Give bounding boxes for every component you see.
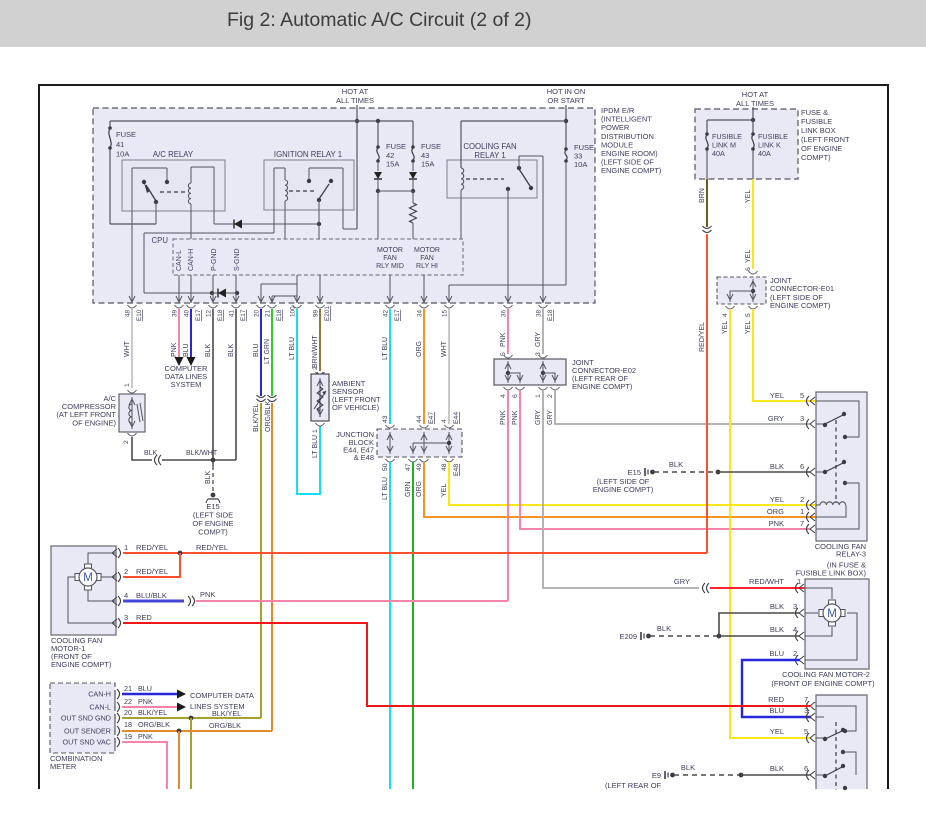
svg-text:A/C RELAY: A/C RELAY	[153, 150, 194, 159]
svg-text:BLK: BLK	[657, 624, 671, 633]
svg-text:LT BLU: LT BLU	[312, 435, 319, 458]
wire GRY E02-1	[543, 390, 699, 588]
title bar	[0, 0, 926, 47]
svg-text:LT BLU: LT BLU	[382, 337, 389, 360]
svg-text:47: 47	[405, 463, 412, 471]
svg-text:E18: E18	[276, 309, 283, 321]
svg-text:BLK: BLK	[669, 460, 683, 469]
svg-text:YEL: YEL	[722, 321, 729, 334]
svg-text:ORG: ORG	[416, 341, 423, 357]
relay COOLING FAN RELAY-3	[816, 392, 867, 541]
svg-text:18: 18	[124, 720, 132, 729]
svg-text:GRY: GRY	[535, 410, 542, 425]
wire YEL 48	[449, 462, 816, 505]
wire fanrelay1 coil to CPU	[460, 190, 462, 239]
svg-text:20: 20	[254, 309, 261, 317]
relay2 pin6	[807, 770, 810, 780]
pin 21 IPDM exit	[269, 296, 272, 302]
svg-text:FUSE: FUSE	[421, 142, 441, 151]
svg-text:CAN-L: CAN-L	[176, 250, 183, 271]
svg-text:HOT IN ON: HOT IN ON	[547, 87, 586, 96]
svg-text:Fig 2: Automatic A/C Circuit (: Fig 2: Automatic A/C Circuit (2 of 2)	[227, 9, 532, 31]
fuse 41	[109, 121, 111, 127]
FUSE AND FUSIBLE LINK BOX	[695, 109, 798, 179]
pin 42 IPDM exit	[387, 296, 390, 302]
svg-text:COOLING FAN MOTOR-2: COOLING FAN MOTOR-2	[782, 670, 870, 679]
svg-text:2: 2	[312, 366, 319, 370]
svg-text:BLK: BLK	[770, 462, 784, 471]
svg-text:E9: E9	[652, 771, 661, 780]
pin 15 IPDM exit	[446, 296, 449, 302]
svg-text:PNK: PNK	[500, 332, 507, 347]
svg-text:LT BLU: LT BLU	[382, 477, 389, 500]
wire WHT 15 drop	[448, 309, 450, 424]
svg-text:GRN: GRN	[405, 481, 412, 497]
svg-text:OUT SENDER: OUT SENDER	[64, 727, 111, 736]
svg-text:(FRONT OF ENGINE COMPT): (FRONT OF ENGINE COMPT)	[771, 679, 875, 688]
svg-text:BRN: BRN	[699, 188, 706, 203]
svg-text:HOT AT: HOT AT	[342, 87, 369, 96]
motor1 pin2	[118, 572, 121, 582]
relay2 pin5	[807, 733, 810, 743]
svg-text:BLK/YEL: BLK/YEL	[212, 709, 241, 718]
fuse 33	[564, 147, 568, 151]
svg-text:22: 22	[124, 697, 132, 706]
wire ORG 34 drop	[423, 309, 425, 424]
svg-text:S-GND: S-GND	[234, 248, 241, 271]
junction block exit 50	[386, 459, 395, 462]
svg-text:RLY MID: RLY MID	[376, 263, 404, 270]
wire fuse link 42-43	[378, 190, 413, 192]
svg-text:15A: 15A	[421, 160, 434, 169]
svg-text:20: 20	[124, 708, 132, 717]
link bus	[707, 119, 753, 121]
wire CPU to pin42	[389, 275, 391, 303]
fuse 43	[412, 121, 414, 146]
svg-text:10A: 10A	[574, 160, 587, 169]
svg-text:CAN-H: CAN-H	[188, 249, 195, 271]
ignrelay internal switch	[309, 167, 343, 169]
wire BLU/BLK	[123, 600, 184, 603]
wire BRN	[706, 179, 708, 227]
svg-text:CPU: CPU	[152, 236, 169, 245]
COOLING FAN MOTOR-1	[51, 546, 116, 635]
wire acrelay switch out	[131, 168, 133, 303]
svg-text:COOLING FAN: COOLING FAN	[463, 142, 516, 151]
pin 100 IPDM exit	[294, 296, 297, 302]
motor2 pin2	[796, 655, 799, 665]
relay2 internals	[816, 706, 856, 731]
svg-text:4: 4	[124, 591, 128, 600]
wire BLU 40	[190, 309, 192, 357]
svg-text:OR START: OR START	[547, 96, 585, 105]
svg-text:FUSE: FUSE	[386, 142, 406, 151]
svg-text:BLU/BLK: BLU/BLK	[136, 591, 167, 600]
svg-text:7: 7	[804, 695, 808, 704]
acrelay dashed link	[160, 191, 185, 193]
E01 exit 4	[726, 306, 735, 309]
svg-text:COMPUTER DATA: COMPUTER DATA	[190, 691, 254, 700]
svg-text:OF ENGINE: OF ENGINE	[801, 144, 842, 153]
svg-text:43: 43	[382, 415, 389, 423]
wire ignrelay coil return	[273, 168, 275, 233]
svg-text:PNK: PNK	[769, 519, 784, 528]
svg-text:BLK/WHT: BLK/WHT	[186, 450, 218, 457]
relay2 pin7	[807, 701, 810, 711]
svg-text:41: 41	[229, 309, 236, 317]
wire GRY 38 drop	[542, 309, 544, 354]
svg-text:E44: E44	[453, 412, 460, 424]
wire BLK 41	[235, 309, 237, 460]
svg-text:BLU: BLU	[138, 684, 152, 693]
svg-text:E17: E17	[195, 309, 202, 321]
wire YEL link K	[752, 179, 754, 269]
svg-text:PNK: PNK	[200, 590, 215, 599]
svg-text:HOT AT: HOT AT	[742, 90, 769, 99]
svg-text:E10: E10	[136, 309, 143, 321]
svg-text:FUSIBLE LINK BOX): FUSIBLE LINK BOX)	[796, 569, 867, 578]
relay3 pin7	[807, 524, 810, 534]
svg-text:OF VEHICLE): OF VEHICLE)	[332, 403, 380, 412]
svg-text:6: 6	[745, 267, 752, 271]
svg-text:RED/YEL: RED/YEL	[196, 543, 228, 552]
svg-text:36: 36	[501, 309, 508, 317]
svg-text:RED/YEL: RED/YEL	[136, 567, 168, 576]
relay3 pin6	[807, 467, 810, 477]
svg-text:6: 6	[512, 394, 519, 398]
svg-text:E48: E48	[453, 464, 460, 476]
svg-text:YEL: YEL	[745, 321, 752, 334]
svg-text:40A: 40A	[712, 149, 725, 158]
svg-text:RED/WHT: RED/WHT	[749, 577, 784, 586]
svg-text:M: M	[83, 572, 93, 584]
connector GRY/REDWHT	[703, 583, 706, 593]
svg-text:5: 5	[745, 313, 752, 317]
svg-text:6: 6	[800, 462, 804, 471]
E02 exit 2	[551, 387, 560, 390]
fusible link M	[705, 132, 709, 136]
svg-text:FUSIBLE: FUSIBLE	[801, 117, 832, 126]
svg-text:RED: RED	[768, 695, 784, 704]
power bus 2	[461, 120, 566, 122]
wire fanrelay1 common	[518, 156, 520, 168]
svg-text:WHT: WHT	[441, 340, 448, 357]
svg-text:BRN/WHT: BRN/WHT	[312, 335, 319, 368]
wire feed left hot	[356, 105, 358, 229]
svg-text:1: 1	[312, 429, 319, 433]
pin 34 IPDM exit	[421, 296, 424, 302]
wire CPU to pin12	[212, 275, 214, 303]
svg-text:49: 49	[416, 463, 423, 471]
svg-text:4: 4	[793, 625, 797, 634]
wire feed ign hot	[565, 105, 567, 148]
svg-text:E18: E18	[547, 309, 554, 321]
svg-text:P-GND: P-GND	[211, 248, 218, 271]
svg-text:RELAY-3: RELAY-3	[836, 550, 866, 559]
svg-text:E17: E17	[240, 309, 247, 321]
wire RED/YEL branch	[123, 553, 180, 577]
connector LTGRN/ORGBLK	[268, 395, 277, 398]
wire ignrelay switch to diode line	[318, 200, 320, 239]
svg-text:34: 34	[417, 309, 424, 317]
fanrelay1 dashed link	[466, 178, 504, 180]
motor2 pin3	[796, 608, 799, 618]
svg-text:BLK: BLK	[205, 470, 212, 484]
svg-text:RED/YEL: RED/YEL	[699, 322, 706, 352]
svg-text:YEL: YEL	[770, 495, 784, 504]
svg-text:LINK BOX: LINK BOX	[801, 126, 836, 135]
svg-text:E47: E47	[428, 412, 435, 424]
fuse 42	[376, 119, 380, 123]
svg-text:2: 2	[800, 495, 804, 504]
svg-text:METER: METER	[50, 762, 77, 771]
svg-text:MOTOR: MOTOR	[414, 247, 440, 254]
wire link K out	[752, 150, 754, 179]
wire link M out	[706, 150, 708, 179]
wire BLU 20	[260, 309, 262, 396]
svg-text:PNK: PNK	[171, 342, 178, 357]
motor1 pin4	[118, 596, 121, 606]
diode under fuse42	[377, 162, 379, 171]
acrelay coil	[190, 167, 192, 183]
svg-text:3: 3	[793, 602, 797, 611]
motor2 internals	[805, 588, 832, 599]
svg-text:GRY: GRY	[768, 414, 784, 423]
pin 20 IPDM exit	[258, 296, 261, 302]
svg-text:RELAY 1: RELAY 1	[474, 151, 505, 160]
svg-text:42: 42	[383, 309, 390, 317]
svg-text:YEL: YEL	[745, 250, 752, 263]
wire CPU to pin34	[423, 275, 425, 303]
svg-text:GRY: GRY	[674, 577, 690, 586]
wire BLK/YEL 20	[260, 403, 262, 718]
svg-text:CAN-H: CAN-H	[88, 690, 111, 699]
svg-text:BLK/YEL: BLK/YEL	[138, 708, 167, 717]
svg-text:YEL: YEL	[770, 727, 784, 736]
svg-text:15A: 15A	[386, 160, 399, 169]
svg-text:1: 1	[797, 577, 801, 586]
svg-text:RLY HI: RLY HI	[416, 263, 438, 270]
svg-text:& E48: & E48	[354, 453, 374, 462]
svg-text:OF ENGINE): OF ENGINE)	[72, 419, 116, 428]
svg-text:ORG/BLK: ORG/BLK	[265, 401, 272, 432]
svg-text:LT BLU: LT BLU	[289, 337, 296, 360]
svg-text:3: 3	[800, 414, 804, 423]
svg-text:M: M	[827, 608, 837, 620]
wire feed right hot	[752, 107, 754, 120]
wire RED/YEL vertical	[706, 234, 708, 553]
svg-text:1: 1	[124, 543, 128, 552]
pin 38 IPDM exit	[540, 296, 543, 302]
svg-text:5: 5	[800, 391, 804, 400]
svg-text:RED: RED	[136, 613, 152, 622]
E01 exit 5	[749, 306, 758, 309]
pin 41 IPDM exit	[233, 296, 236, 302]
svg-text:19: 19	[124, 732, 132, 741]
svg-text:OUT SND GND: OUT SND GND	[61, 714, 111, 723]
svg-text:BLU: BLU	[769, 649, 784, 658]
svg-text:E201: E201	[324, 306, 331, 321]
COMBINATION METER	[50, 683, 115, 753]
svg-text:GRY: GRY	[547, 410, 554, 425]
svg-text:6: 6	[804, 764, 808, 773]
wire CPU to pin41	[235, 275, 237, 303]
diode under fuse43	[412, 162, 414, 171]
wire ignrelay contact out	[342, 168, 344, 229]
sensor pin 1	[316, 423, 325, 426]
svg-text:E17: E17	[394, 309, 401, 321]
wire BLK/WHT	[162, 459, 236, 461]
wire WHT 48	[131, 309, 133, 388]
wire BLU meter	[122, 693, 177, 696]
JUNCTION BLOCK E44 E47 E48	[377, 429, 462, 457]
svg-text:100: 100	[290, 306, 297, 317]
svg-text:44: 44	[416, 415, 423, 423]
wire BLK to ground E15	[212, 460, 214, 466]
wire BLK motor2 pin4	[719, 635, 800, 637]
wire BRN/WHT 99	[319, 309, 321, 371]
wire CPU to pin21	[271, 296, 273, 303]
svg-text:BLK: BLK	[770, 625, 784, 634]
svg-text:2: 2	[793, 649, 797, 658]
wire LT BLU 42 drop	[389, 309, 391, 424]
wire CPU to pin100	[296, 275, 298, 303]
ignrelay dashed link	[289, 190, 316, 192]
svg-text:1: 1	[535, 394, 542, 398]
wire CPU to pin39	[178, 275, 180, 303]
svg-text:3: 3	[124, 613, 128, 622]
svg-text:ENGINE COMPT): ENGINE COMPT)	[770, 301, 831, 310]
svg-text:ALL TIMES: ALL TIMES	[336, 96, 374, 105]
wire ORG/BLK 21	[271, 403, 273, 731]
CPU box	[173, 239, 463, 275]
diode D2 low	[144, 292, 237, 294]
pin 12 IPDM exit	[210, 296, 213, 302]
wire RED motor1	[123, 623, 811, 706]
junction dot BLK	[211, 458, 216, 463]
COOLING FAN MOTOR-2	[805, 579, 869, 669]
wire YEL E01-4	[730, 309, 811, 738]
svg-text:FUSE: FUSE	[116, 130, 136, 139]
svg-text:COMPT): COMPT)	[801, 153, 831, 162]
wire GRN 47	[412, 462, 414, 789]
svg-text:BLU: BLU	[183, 343, 190, 357]
A/C COMPRESSOR	[119, 394, 145, 432]
svg-text:E15: E15	[628, 468, 641, 477]
wire CPU to pin40	[190, 275, 192, 303]
wire BLU motor2	[742, 660, 811, 717]
svg-text:2: 2	[547, 394, 554, 398]
svg-text:ORG/BLK: ORG/BLK	[138, 720, 170, 729]
junction block exit 48	[445, 459, 454, 462]
wire BLK motor2 pin3	[719, 613, 800, 636]
wire fuse33 to pin15	[565, 162, 567, 285]
svg-text:ORG: ORG	[416, 481, 423, 497]
relay2 pin3	[807, 712, 810, 722]
wire BLK relay2 pin6	[741, 774, 811, 776]
compressor pin 2	[128, 433, 137, 436]
JOINT CONNECTOR-E01	[717, 277, 766, 304]
wire ignrelay coil to CPU	[284, 201, 286, 239]
wire ORG/BLK stub	[178, 731, 180, 789]
diode D1	[214, 223, 319, 225]
svg-text:1: 1	[124, 383, 131, 387]
svg-text:E18: E18	[217, 309, 224, 321]
svg-text:BLK/YEL: BLK/YEL	[253, 403, 260, 432]
svg-text:48: 48	[441, 463, 448, 471]
svg-text:12: 12	[206, 309, 213, 317]
svg-text:BLK: BLK	[205, 343, 212, 357]
svg-text:7: 7	[800, 519, 804, 528]
connector BRN/REDYEL	[703, 226, 712, 229]
svg-text:IGNITION RELAY 1: IGNITION RELAY 1	[274, 150, 342, 159]
wire PNK E02-4	[507, 390, 509, 601]
relay3 pin3	[807, 419, 810, 429]
svg-text:4: 4	[722, 313, 729, 317]
JOINT CONNECTOR-E02	[494, 359, 566, 385]
svg-text:1: 1	[800, 507, 804, 516]
svg-text:40A: 40A	[758, 149, 771, 158]
svg-text:4: 4	[500, 394, 507, 398]
svg-text:WHT: WHT	[124, 340, 131, 357]
pin 39 IPDM exit	[176, 296, 179, 302]
motor1 pin3	[118, 618, 121, 628]
wire CPU to pin99	[319, 275, 321, 303]
wire RED/YEL motor1	[123, 552, 707, 554]
wire LT BLU 50	[389, 462, 391, 789]
svg-text:E209: E209	[619, 632, 637, 641]
wire bus2 to fanrelay coil	[460, 121, 462, 168]
svg-text:YEL: YEL	[770, 391, 784, 400]
wire ORG/BLK meter	[122, 730, 272, 732]
wire GRY E02-2	[555, 390, 810, 424]
ignrelay coil	[274, 167, 285, 169]
relay COOLING FAN RELAY-2	[816, 695, 867, 789]
wire CPU to pin20	[260, 284, 262, 303]
svg-text:BLK: BLK	[770, 602, 784, 611]
IPDM E/R box	[93, 108, 595, 303]
svg-text:LT GRN: LT GRN	[264, 339, 271, 364]
svg-text:YEL: YEL	[745, 190, 752, 203]
svg-text:41: 41	[116, 140, 124, 149]
svg-text:GRY: GRY	[535, 332, 542, 347]
svg-text:ORG: ORG	[767, 507, 784, 516]
fanrelay1 coil	[461, 168, 464, 190]
resistor R1	[412, 191, 414, 203]
wire PNK meter 19	[122, 742, 167, 789]
svg-text:BLU: BLU	[769, 706, 784, 715]
svg-text:FAN: FAN	[420, 255, 434, 262]
svg-text:PNK: PNK	[138, 732, 153, 741]
svg-text:YEL: YEL	[441, 484, 448, 497]
connector BLUBLK/PNK	[188, 596, 191, 606]
svg-text:ENGINE COMPT): ENGINE COMPT)	[601, 166, 662, 175]
relay3 pin5	[807, 396, 810, 406]
wire BLK/YEL stub	[190, 718, 192, 789]
svg-text:CONNECTOR-E01: CONNECTOR-E01	[770, 284, 834, 293]
junction block exit 49	[420, 459, 429, 462]
junction block exit 47	[409, 459, 418, 462]
svg-text:50: 50	[382, 463, 389, 471]
svg-text:40: 40	[184, 309, 191, 317]
fusible link K	[752, 120, 754, 133]
svg-text:21: 21	[124, 684, 132, 693]
relay3 pin2	[807, 500, 810, 510]
thermistor AMBIENT SENSOR	[311, 374, 329, 421]
svg-text:2: 2	[123, 440, 130, 444]
svg-text:(LEFT REAR OF: (LEFT REAR OF	[605, 781, 662, 790]
svg-text:ENGINE COMPT): ENGINE COMPT)	[593, 485, 654, 494]
